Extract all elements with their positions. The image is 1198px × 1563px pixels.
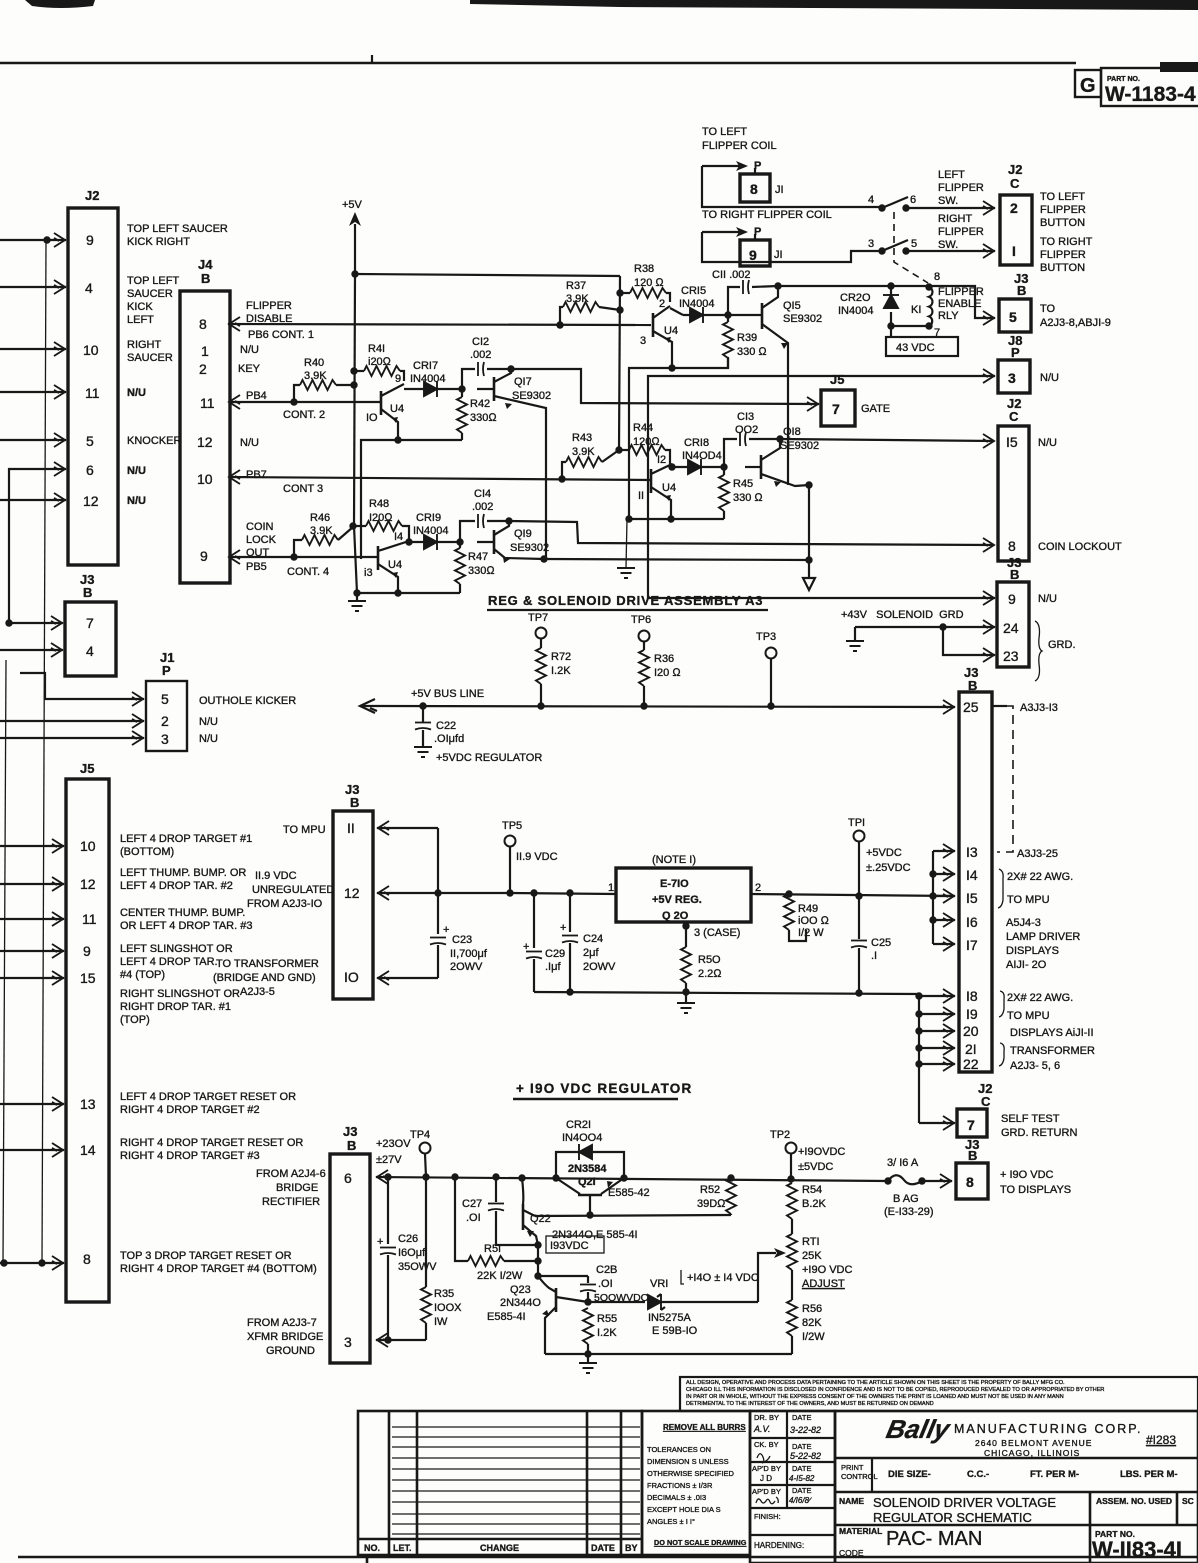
svg-text:KNOCKER: KNOCKER — [127, 435, 181, 447]
svg-text:3: 3 — [344, 1334, 352, 1350]
node P arrow right flipper — [702, 231, 745, 233]
svg-text:FROM A2J4-6: FROM A2J4-6 — [256, 1168, 326, 1180]
svg-text:GATE: GATE — [861, 403, 890, 415]
wire J1P pin 2 — [0, 720, 144, 722]
svg-text:I3: I3 — [966, 844, 978, 860]
svg-text:DIMENSION S UNLESS: DIMENSION S UNLESS — [647, 1457, 729, 1466]
top right black bar — [470, 0, 1198, 10]
svg-text:CONT. 4: CONT. 4 — [287, 566, 329, 578]
svg-text:I93VDC: I93VDC — [550, 1240, 589, 1252]
wire J5 pin 14 — [0, 1149, 64, 1151]
svg-text:LEFT 4 DROP TARGET RESET: LEFT 4 DROP TARGET RESET OR — [120, 1091, 296, 1103]
svg-text:CR2O: CR2O — [840, 292, 871, 304]
svg-text:LEFT: LEFT — [127, 314, 154, 326]
svg-text:2: 2 — [1010, 200, 1018, 216]
wire Q18 collector to J2C-15 — [780, 439, 993, 441]
svg-text:120Ω: 120Ω — [633, 436, 660, 448]
svg-text:LET.: LET. — [393, 1543, 412, 1553]
svg-text:AP'D BY: AP'D BY — [752, 1487, 781, 1496]
wire Q19 collector to coin lockout — [509, 521, 993, 545]
svg-text:TPI: TPI — [848, 817, 865, 829]
svg-text:N/U: N/U — [127, 465, 146, 477]
svg-text:SELF TEST: SELF TEST — [1001, 1113, 1060, 1125]
svg-text:10: 10 — [80, 838, 96, 854]
connector J1 pin 9 box — [740, 240, 770, 266]
svg-text:IO: IO — [366, 412, 378, 424]
svg-text:i20Ω: i20Ω — [368, 356, 392, 368]
node +5V rail — [351, 270, 358, 277]
node P arrow left flipper — [702, 165, 745, 167]
svg-text:2X# 22 AWG.: 2X# 22 AWG. — [1007, 992, 1073, 1004]
svg-text:22K I/2W: 22K I/2W — [477, 1270, 523, 1282]
svg-text:FT. PER M-: FT. PER M- — [1030, 1469, 1079, 1480]
svg-text:15: 15 — [80, 970, 96, 986]
svg-text:C.C.-: C.C.- — [967, 1469, 989, 1480]
svg-text:KEY: KEY — [238, 363, 261, 375]
svg-text:IW: IW — [434, 1316, 448, 1328]
svg-text:LOCK: LOCK — [246, 534, 277, 546]
svg-text:B AG: B AG — [893, 1193, 919, 1205]
svg-text:IOOX: IOOX — [434, 1302, 462, 1314]
svg-text:TOP LEFT SAUCER: TOP LEFT SAUCER — [127, 223, 228, 235]
svg-text:I5: I5 — [1006, 434, 1018, 450]
wire +5V vertical feed cells 1,3 — [619, 276, 620, 450]
svg-text:5: 5 — [911, 238, 917, 250]
svg-text:12: 12 — [197, 434, 213, 450]
svg-text:QI7: QI7 — [514, 376, 532, 388]
svg-text:DETRIMENTAL TO THE INTEREST: DETRIMENTAL TO THE INTEREST OF THE OWNER… — [686, 1401, 934, 1407]
svg-text:XFMR BRIDGE: XFMR BRIDGE — [247, 1331, 323, 1343]
svg-text:RLY: RLY — [938, 310, 959, 322]
svg-text:3.9K: 3.9K — [572, 446, 595, 458]
svg-text:CI3: CI3 — [737, 411, 754, 423]
svg-text:CONT. 2: CONT. 2 — [283, 409, 325, 421]
svg-text:+5VDC REGULATOR: +5VDC REGULATOR — [436, 752, 542, 764]
svg-text:REMOVE ALL BURRS: REMOVE ALL BURRS — [663, 1423, 746, 1432]
wire bus to pins 18-22 — [918, 994, 920, 1123]
svg-text:B: B — [1010, 567, 1019, 582]
svg-text:FLIPPER: FLIPPER — [1040, 249, 1086, 261]
svg-text:+ I9O VDC REGULATOR: + I9O VDC REGULATOR — [516, 1081, 692, 1096]
svg-text:TP3: TP3 — [756, 631, 776, 643]
svg-text:FLIPPER: FLIPPER — [246, 300, 292, 312]
svg-text:±5VDC: ±5VDC — [798, 1161, 833, 1173]
svg-text:IN4004: IN4004 — [413, 525, 448, 537]
svg-text:GRD.: GRD. — [1048, 639, 1076, 651]
svg-text:A3J3-I3: A3J3-I3 — [1020, 702, 1058, 714]
svg-text:A2J3-5: A2J3-5 — [240, 986, 275, 998]
svg-text:14: 14 — [80, 1142, 96, 1158]
wire Q21 base line — [586, 1211, 593, 1218]
svg-text:TOP 3 DROP TARGET RESET O: TOP 3 DROP TARGET RESET OR — [120, 1250, 292, 1262]
svg-text:35OWV: 35OWV — [398, 1261, 437, 1273]
resistor R47 330 — [459, 542, 461, 548]
svg-text:U4: U4 — [664, 325, 678, 337]
svg-text:LEFT SLINGSHOT OR: LEFT SLINGSHOT OR — [120, 943, 233, 955]
svg-text:R72: R72 — [551, 651, 571, 663]
wire bus to pins 13-17 — [932, 851, 934, 944]
svg-text:A5J4-3: A5J4-3 — [1006, 917, 1041, 929]
svg-text:330Ω: 330Ω — [468, 565, 495, 577]
svg-text:SE9302: SE9302 — [780, 440, 819, 452]
svg-text:J2: J2 — [1008, 162, 1022, 177]
svg-text:+ I9O VDC: + I9O VDC — [1000, 1169, 1054, 1181]
svg-text:C27: C27 — [462, 1198, 482, 1210]
svg-text:J4: J4 — [198, 257, 213, 272]
transistor Q17 SE9302 — [477, 388, 494, 390]
svg-text:24: 24 — [1003, 620, 1019, 636]
svg-text:5-22-82: 5-22-82 — [790, 1451, 821, 1461]
svg-text:3: 3 — [640, 335, 646, 347]
svg-text:(E-I33-29): (E-I33-29) — [884, 1206, 934, 1218]
svg-text:RIGHT 4 DROP TARGET #4 (B: RIGHT 4 DROP TARGET #4 (BOTTOM) — [120, 1263, 317, 1275]
svg-text:I5: I5 — [966, 890, 978, 906]
svg-text:+I9O VDC: +I9O VDC — [802, 1264, 852, 1276]
svg-text:C22: C22 — [436, 720, 456, 732]
svg-text:I7: I7 — [966, 937, 978, 953]
svg-text:FLIPPER COIL: FLIPPER COIL — [702, 140, 777, 152]
svg-text:10: 10 — [197, 471, 213, 487]
svg-text:7: 7 — [832, 401, 840, 417]
wire J1P pin 3 — [0, 737, 144, 739]
capacitor C26 160uf — [387, 1177, 389, 1244]
svg-text:2OWV: 2OWV — [583, 961, 616, 973]
svg-text:C26: C26 — [398, 1233, 418, 1245]
svg-text:ALL DESIGN, OPERATIVE AND: ALL DESIGN, OPERATIVE AND PROCESS DATA P… — [686, 1380, 1065, 1386]
svg-text:DATE: DATE — [591, 1543, 615, 1553]
svg-text:R54: R54 — [802, 1184, 822, 1196]
svg-text:N/U: N/U — [240, 344, 259, 356]
svg-text:8: 8 — [199, 316, 207, 332]
svg-text:2: 2 — [161, 713, 169, 729]
svg-text:CII .002: CII .002 — [712, 269, 751, 281]
svg-text:.OIμfd: .OIμfd — [434, 733, 464, 745]
wire J3B pin 4 — [0, 649, 63, 651]
svg-text:I.2K: I.2K — [551, 665, 571, 677]
svg-text:SAUCER: SAUCER — [127, 288, 173, 300]
svg-text:J D: J D — [760, 1474, 772, 1483]
diode CR18 IN4004 — [668, 463, 675, 470]
svg-text:330 Ω: 330 Ω — [737, 346, 767, 358]
svg-text:DISPLAYS AiJI-II: DISPLAYS AiJI-II — [1010, 1027, 1094, 1039]
capacitor C13 .002 — [724, 439, 737, 467]
svg-text:CRI7: CRI7 — [413, 360, 438, 372]
top rule — [0, 62, 1076, 65]
svg-text:R37: R37 — [566, 280, 586, 292]
svg-text:6: 6 — [86, 462, 94, 478]
svg-text:NAME: NAME — [839, 1496, 864, 1506]
svg-text:SW.: SW. — [938, 195, 958, 207]
wire PB7 CONT.3 line — [230, 477, 651, 480]
svg-text:LEFT THUMP. BUMP. OR: LEFT THUMP. BUMP. OR — [120, 867, 246, 879]
svg-text:FROM A2J3-7: FROM A2J3-7 — [247, 1317, 317, 1329]
ground — [626, 519, 627, 568]
svg-text:U4: U4 — [662, 482, 676, 494]
43 VDC box — [890, 326, 892, 337]
svg-text:I9: I9 — [966, 1006, 978, 1022]
svg-text:+5V: +5V — [342, 199, 363, 211]
svg-text:HARDENING:: HARDENING: — [754, 1541, 804, 1550]
svg-text:ASSEM. NO. USED: ASSEM. NO. USED — [1096, 1496, 1172, 1506]
svg-text:FLIPPER: FLIPPER — [1040, 204, 1086, 216]
resistor R54 8.2K — [787, 1183, 797, 1219]
svg-text:13: 13 — [80, 1096, 96, 1112]
svg-text:R42: R42 — [470, 398, 490, 410]
svg-text:12: 12 — [344, 885, 360, 901]
svg-text:3.9K: 3.9K — [304, 370, 327, 382]
svg-text:TO TRANSFORMER: TO TRANSFORMER — [216, 958, 319, 970]
svg-text:CENTER THUMP. BUMP.: CENTER THUMP. BUMP. — [120, 907, 245, 919]
svg-text:23: 23 — [1003, 648, 1019, 664]
svg-text:I6Oμf: I6Oμf — [398, 1247, 426, 1259]
svg-text:Q23: Q23 — [510, 1284, 531, 1296]
svg-text:N/U: N/U — [199, 733, 218, 745]
transistor U4 pre-driver (pins 12,11) — [650, 469, 653, 493]
svg-text:LEFT: LEFT — [938, 169, 965, 181]
svg-text:BUTTON: BUTTON — [1040, 262, 1085, 274]
svg-text:OR LEFT 4 DROP TAR. #3: OR LEFT 4 DROP TAR. #3 — [120, 920, 252, 932]
diode CR15 IN4004 — [670, 308, 683, 315]
svg-text:SW.: SW. — [938, 239, 958, 251]
svg-text:+I4O ± I4 VDC: +I4O ± I4 VDC — [687, 1272, 759, 1284]
resistor R43 3.9K — [562, 462, 566, 479]
svg-text:IN4004: IN4004 — [838, 305, 873, 317]
wire J5 pin 9 — [0, 950, 64, 952]
svg-text:C: C — [1010, 176, 1020, 191]
wire relay to J3B-5 — [929, 286, 995, 318]
svg-text:B: B — [83, 585, 92, 600]
wire cell3 ground bus — [629, 518, 724, 520]
svg-text:(BOTTOM): (BOTTOM) — [120, 846, 174, 858]
svg-text:G: G — [1080, 75, 1096, 97]
wire PB5 CONT.4 line — [230, 556, 378, 558]
svg-text:8: 8 — [934, 271, 940, 283]
svg-text:GRD. RETURN: GRD. RETURN — [1001, 1127, 1077, 1139]
capacitor C27 .01 — [495, 1177, 497, 1202]
svg-text:Q2I: Q2I — [578, 1176, 596, 1188]
wire cell2 emitter bus — [361, 440, 462, 559]
svg-text:CONTROL: CONTROL — [841, 1472, 878, 1481]
wire to right flipper switch — [702, 232, 880, 262]
svg-text:R5I: R5I — [484, 1243, 501, 1255]
wire PB4 CONT.2 line — [230, 401, 381, 403]
svg-text:R45: R45 — [733, 478, 753, 490]
svg-text:TP7: TP7 — [528, 612, 548, 624]
capacitor C28 .01 500WVDC — [538, 1275, 588, 1277]
svg-text:N/U: N/U — [240, 437, 259, 449]
wire L into pin 6 — [9, 469, 66, 623]
svg-text:4/I6/8∕: 4/I6/8∕ — [789, 1496, 812, 1505]
svg-text:330 Ω: 330 Ω — [733, 492, 763, 504]
svg-text:CHICAGO, ILLINOIS: CHICAGO, ILLINOIS — [984, 1448, 1080, 1458]
svg-text:DATE: DATE — [792, 1464, 811, 1473]
diode CR17 IN4004 — [404, 388, 462, 390]
svg-text:BRIDGE: BRIDGE — [276, 1182, 318, 1194]
svg-text:RIGHT: RIGHT — [127, 339, 162, 351]
svg-text:±.25VDC: ±.25VDC — [866, 862, 911, 874]
svg-text:12: 12 — [80, 876, 96, 892]
svg-text:I2: I2 — [657, 454, 666, 466]
svg-text:II.9 VDC: II.9 VDC — [255, 870, 297, 882]
svg-text:PRINT: PRINT — [841, 1463, 864, 1472]
svg-text:3-22-82: 3-22-82 — [790, 1425, 821, 1435]
pot RT1 25K — [787, 1234, 797, 1270]
svg-text:DIE SIZE-: DIE SIZE- — [888, 1469, 931, 1480]
svg-text:+I9OVDC: +I9OVDC — [798, 1146, 845, 1158]
svg-text:P: P — [162, 663, 171, 678]
svg-text:I.2K: I.2K — [597, 1327, 617, 1339]
wire cell1 emitter bus — [629, 357, 728, 519]
svg-text:4: 4 — [868, 194, 874, 206]
node junction on pin 9 wire — [43, 236, 50, 243]
svg-text:DATE: DATE — [792, 1413, 811, 1422]
G box — [1075, 70, 1101, 97]
resistor R46 3.9K — [294, 540, 302, 557]
wire Q17 collector to GATE — [511, 369, 819, 404]
wire J5 pin 12 — [0, 883, 64, 885]
wire +5V vertical feed cells 2,4 — [354, 274, 355, 526]
wire pin 3 — [376, 1339, 426, 1341]
svg-text:TP2: TP2 — [770, 1129, 790, 1141]
svg-text:.OI: .OI — [466, 1212, 481, 1224]
resistor R41 120 — [350, 367, 357, 374]
svg-text:9: 9 — [749, 247, 757, 263]
svg-text:3.9K: 3.9K — [310, 525, 333, 537]
svg-text:EXCEPT HOLE DIA S: EXCEPT HOLE DIA S — [647, 1505, 721, 1514]
svg-text:J5: J5 — [830, 372, 844, 387]
wire left vertical bus — [42, 240, 46, 1263]
svg-text:IN5275A: IN5275A — [648, 1312, 691, 1324]
svg-text:DR. BY: DR. BY — [754, 1413, 779, 1422]
svg-text:CI2: CI2 — [472, 336, 489, 348]
svg-text:I6: I6 — [966, 914, 978, 930]
193VDC node — [534, 1241, 541, 1248]
svg-text:I20 Ω: I20 Ω — [654, 667, 681, 679]
connector J1 pin 8 box — [740, 174, 770, 202]
svg-text:3/ I6 A: 3/ I6 A — [887, 1157, 919, 1169]
wire PB6 CONT.1 line — [228, 323, 230, 325]
svg-text:A.V.: A.V. — [753, 1424, 770, 1434]
svg-text:PAC- MAN: PAC- MAN — [886, 1528, 982, 1550]
capacitor C25 .1 — [858, 896, 860, 939]
svg-text:JI: JI — [775, 184, 784, 196]
sign-off cells — [750, 1411, 835, 1563]
svg-text:A3J3-25: A3J3-25 — [1017, 848, 1058, 860]
svg-text:FLIPPER: FLIPPER — [938, 226, 984, 238]
svg-text:SC: SC — [1182, 1496, 1194, 1506]
svg-text:120 Ω: 120 Ω — [634, 277, 664, 289]
svg-text:.Iμf: .Iμf — [545, 961, 561, 973]
svg-text:9: 9 — [86, 232, 94, 248]
wire dashed relay link — [894, 212, 928, 283]
svg-text:SE9302: SE9302 — [783, 313, 822, 325]
main title area — [835, 1411, 1198, 1563]
tolerances column — [642, 1411, 750, 1555]
svg-text:R46: R46 — [310, 512, 330, 524]
transistor Q19 SE9302 — [477, 541, 494, 543]
svg-text:REGULATOR SCHEMATIC: REGULATOR SCHEMATIC — [873, 1510, 1032, 1525]
svg-text:2μf: 2μf — [583, 947, 599, 959]
svg-text:7: 7 — [86, 615, 94, 631]
svg-text:UNREGULATED: UNREGULATED — [252, 884, 334, 896]
svg-text:I/2 W: I/2 W — [798, 927, 824, 939]
svg-text:CRI8: CRI8 — [684, 437, 709, 449]
revision table — [358, 1411, 642, 1555]
svg-text:#4 (TOP): #4 (TOP) — [120, 969, 165, 981]
resistor R39 330 — [727, 315, 729, 322]
svg-text:(NOTE I): (NOTE I) — [652, 854, 696, 866]
svg-text:B: B — [1017, 283, 1026, 298]
resistor R49 100 — [784, 894, 794, 930]
svg-text:9: 9 — [395, 373, 401, 385]
svg-text:+: + — [377, 1236, 383, 1248]
svg-text:E-7IO: E-7IO — [660, 878, 689, 890]
svg-text:IN4OD4: IN4OD4 — [682, 450, 722, 462]
svg-text:E585-4I: E585-4I — [487, 1311, 526, 1323]
svg-text:C24: C24 — [583, 933, 603, 945]
svg-text:QI5: QI5 — [783, 300, 801, 312]
resistor R40 3.9K — [294, 385, 300, 402]
svg-text:BUTTON: BUTTON — [1040, 217, 1085, 229]
svg-text:9: 9 — [1008, 591, 1016, 607]
svg-text:R44: R44 — [633, 422, 653, 434]
svg-text:+5V BUS LINE: +5V BUS LINE — [411, 688, 484, 700]
svg-text:.I: .I — [871, 950, 877, 962]
resistor R56 82K — [787, 1300, 797, 1336]
svg-text:IN PART OR IN WHOLE, WITH: IN PART OR IN WHOLE, WITHOUT THE EXPRESS… — [686, 1394, 1064, 1400]
wire J5 pin 10 — [0, 845, 64, 847]
svg-text:ADJUST: ADJUST — [802, 1278, 845, 1290]
transistor Q15 SE9302 — [728, 314, 762, 316]
svg-text:20: 20 — [963, 1023, 979, 1039]
svg-text:2N3584: 2N3584 — [568, 1163, 607, 1175]
svg-text:R56: R56 — [802, 1303, 822, 1315]
svg-text:CK. BY: CK. BY — [754, 1440, 779, 1449]
svg-text:JI: JI — [774, 249, 783, 261]
svg-text:8: 8 — [83, 1251, 91, 1267]
svg-text:COIN LOCKOUT: COIN LOCKOUT — [1038, 541, 1122, 553]
svg-text:iOO Ω: iOO Ω — [798, 915, 830, 927]
svg-text:TO MPU: TO MPU — [1007, 1010, 1050, 1022]
svg-text:TRANSFORMER: TRANSFORMER — [1010, 1045, 1095, 1057]
svg-text:KICK: KICK — [127, 301, 153, 313]
svg-text:TOLERANCES ON: TOLERANCES ON — [647, 1445, 711, 1454]
svg-text:CONT 3: CONT 3 — [283, 483, 323, 495]
svg-text:FRACTIONS ± I/3R: FRACTIONS ± I/3R — [647, 1481, 713, 1490]
svg-text:I20Ω: I20Ω — [369, 512, 393, 524]
svg-text:C: C — [1009, 409, 1019, 424]
svg-text:QI8: QI8 — [783, 426, 801, 438]
svg-text:GROUND: GROUND — [266, 1345, 315, 1357]
wire J5 pin 15 — [0, 977, 64, 979]
wire J5 pin 11 — [0, 918, 64, 920]
svg-text:2X# 22 AWG.: 2X# 22 AWG. — [1007, 871, 1073, 883]
svg-text:I4: I4 — [966, 867, 978, 883]
svg-text:RIGHT SLINGSHOT OR: RIGHT SLINGSHOT OR — [120, 988, 240, 1000]
svg-text:82K: 82K — [802, 1317, 822, 1329]
svg-text:TO RIGHT FLIPPER COIL: TO RIGHT FLIPPER COIL — [702, 209, 832, 221]
svg-text:4: 4 — [86, 643, 94, 659]
svg-text:9: 9 — [83, 943, 91, 959]
svg-text:+: + — [443, 924, 449, 936]
svg-text:PB7: PB7 — [246, 469, 267, 481]
svg-text:6: 6 — [344, 1170, 352, 1186]
svg-text:J5: J5 — [80, 761, 94, 776]
svg-text:II.9 VDC: II.9 VDC — [516, 851, 558, 863]
svg-text:R43: R43 — [572, 432, 592, 444]
wire J2 pin 11 — [0, 391, 66, 393]
svg-text:PB4: PB4 — [246, 390, 267, 402]
